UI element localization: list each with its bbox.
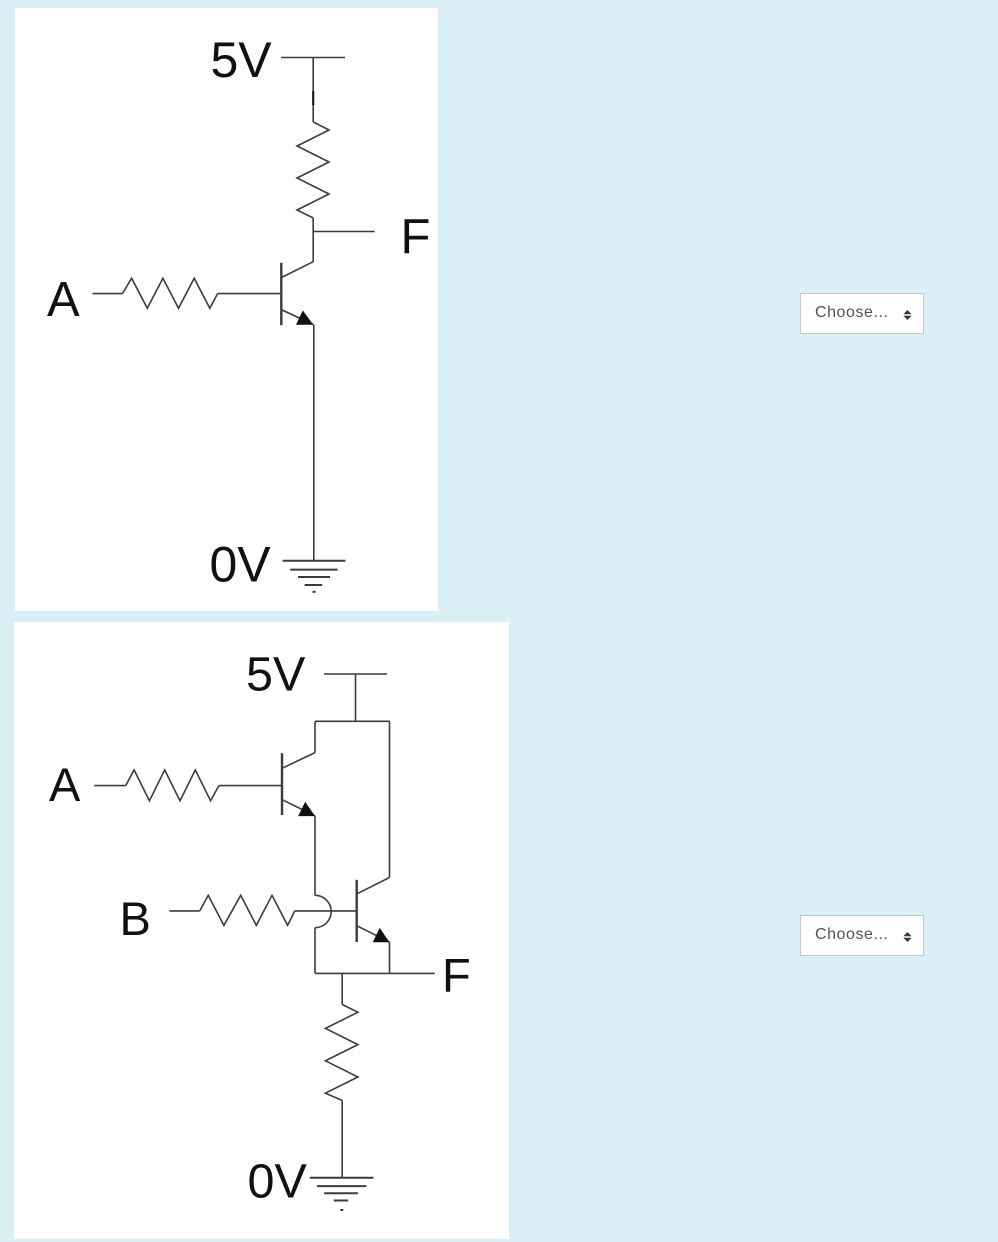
wire: right rail to Q3 collector xyxy=(389,721,391,877)
ground symbol (circuit 1) xyxy=(283,561,346,592)
wire overlap mark on 5V stem xyxy=(312,91,314,105)
wire: Q2 emitter down to hop xyxy=(314,816,316,895)
ground symbol (circuit 2) xyxy=(310,1178,374,1210)
wire: R6 to ground xyxy=(341,1101,343,1178)
svg-text:A: A xyxy=(47,273,80,327)
transistor Q3 emitter arrow xyxy=(373,928,390,942)
transistor Q2 base bar xyxy=(281,753,283,815)
transistor Q2 collector lead xyxy=(282,753,315,769)
wire: Q1 emitter to ground xyxy=(313,325,315,561)
wire: input A lead xyxy=(93,293,123,295)
dropdown select 1 xyxy=(800,293,924,334)
power rail bar 5V (circuit 2) xyxy=(324,673,387,675)
panel: first circuit image background xyxy=(15,8,438,611)
wire: top node horizontal xyxy=(315,720,390,722)
wire: R5 to Q3 base xyxy=(295,910,357,912)
transistor Q2 emitter lead xyxy=(282,800,315,816)
wire hop over B line xyxy=(315,895,331,927)
transistor Q1 base bar xyxy=(280,263,282,325)
wire: R1 bottom to Q1 collector xyxy=(312,218,314,262)
svg-text:0V: 0V xyxy=(210,537,272,593)
wire: output node to F xyxy=(313,231,374,233)
transistor Q3 base bar xyxy=(356,880,358,942)
svg-text:0V: 0V xyxy=(248,1155,308,1209)
wire: left rail to Q2 collector xyxy=(314,721,316,752)
transistor Q3 emitter lead xyxy=(357,926,390,942)
panel: second circuit image background xyxy=(14,622,509,1239)
wire: input A lead (circuit 2) xyxy=(94,785,125,787)
wire: output node F line xyxy=(315,972,435,974)
wire: 5V rail to resistor R1 xyxy=(312,58,314,123)
resistor R4 (A base resistor, horizontal zigzag) xyxy=(126,770,219,801)
dropdown select 2 xyxy=(800,915,924,956)
svg-text:5V: 5V xyxy=(246,648,306,702)
resistor R5 (B base resistor, horizontal zigzag) xyxy=(200,895,295,925)
transistor Q2 emitter arrow xyxy=(298,802,315,816)
wire: input B lead xyxy=(169,910,200,912)
svg-text:F: F xyxy=(442,949,471,1002)
wire: F node to resistor R6 xyxy=(341,973,343,1004)
svg-text:5V: 5V xyxy=(211,32,273,88)
wire: R4 to Q2 base xyxy=(219,785,282,787)
svg-text:F: F xyxy=(401,210,431,264)
resistor R1 (collector pull-up, vertical zigzag) xyxy=(297,122,329,218)
power rail bar 5V (circuit 1) xyxy=(281,57,345,59)
resistor R6 (pull-down, vertical zigzag) xyxy=(325,1005,358,1101)
wire: R2 to Q1 base xyxy=(218,293,282,295)
transistor Q1 emitter lead xyxy=(281,310,313,325)
svg-text:A: A xyxy=(49,758,81,811)
transistor Q1 emitter arrow xyxy=(296,310,313,324)
svg-text:B: B xyxy=(120,892,151,945)
wire: 5V rail stem xyxy=(355,674,357,721)
transistor Q3 collector lead xyxy=(357,878,390,894)
wire: Q3 emitter to output node xyxy=(389,942,391,973)
transistor Q1 collector lead xyxy=(281,262,313,278)
wire: hop to output node xyxy=(314,928,316,974)
resistor R2 (base resistor, horizontal zigzag) xyxy=(123,278,218,308)
